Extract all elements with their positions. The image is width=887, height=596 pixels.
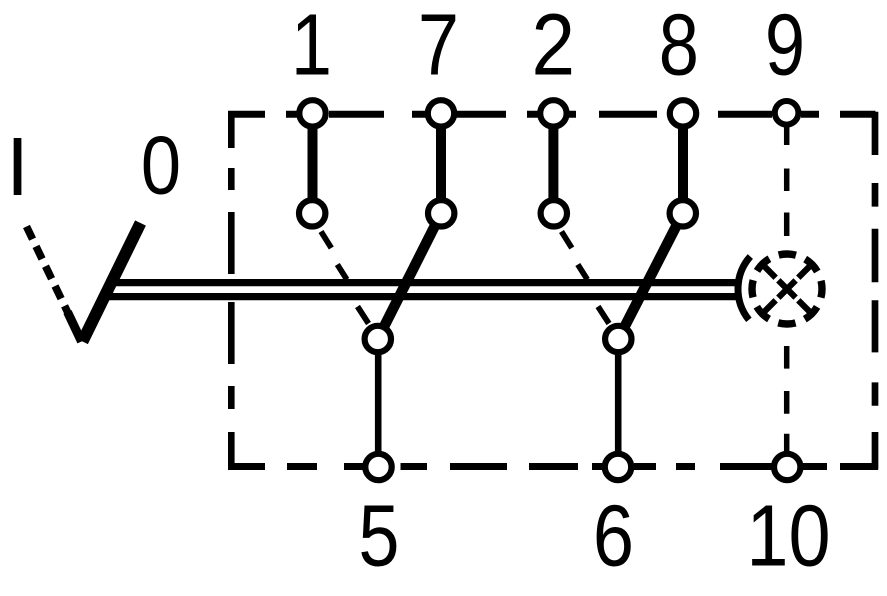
lamp actuator arc — [738, 257, 750, 320]
lever tip arm — [68, 312, 82, 342]
fixed contact circle of 1 — [299, 200, 325, 226]
pivot contact circle right — [605, 326, 631, 352]
lamp dashed circle — [752, 254, 822, 324]
dashed wire terminal 9 to lamp — [784, 127, 790, 236]
switch body dashed border left — [228, 111, 235, 469]
terminal circle 9 — [775, 101, 799, 125]
svg-text:9: 9 — [765, 0, 805, 93]
wire stub terminal 7 to fixed contact — [436, 113, 446, 213]
pivot contact circle left — [365, 326, 391, 352]
moving contact 2-6 open dashed (position I) — [562, 232, 610, 324]
svg-text:1: 1 — [291, 0, 332, 94]
lever solid (position 0) — [83, 223, 141, 342]
svg-text:7: 7 — [418, 0, 459, 94]
terminal circle 7 — [428, 100, 454, 126]
terminal circle 5 — [365, 454, 391, 480]
moving contact 1-5 open dashed (position I) — [321, 232, 369, 324]
fixed contact circle of 7 — [428, 200, 454, 226]
switch body dashed border bottom — [228, 463, 878, 470]
moving contact 8-6 closed (position 0) — [618, 213, 683, 339]
terminal circle 1 — [299, 100, 325, 126]
lamp cross diagonal 2 — [765, 267, 810, 312]
moving contact 7-5 closed (position 0) — [378, 213, 441, 339]
switch body dashed border top — [228, 111, 876, 118]
terminal circle 2 — [540, 100, 566, 126]
actuator bar top line — [110, 279, 739, 286]
svg-text:2: 2 — [532, 0, 576, 93]
lever dashed (position I) — [27, 227, 69, 314]
svg-text:10: 10 — [746, 488, 830, 585]
lamp cross diagonal 1 — [765, 267, 810, 312]
svg-text:6: 6 — [593, 488, 634, 585]
switch body dashed border right — [872, 112, 879, 470]
terminal circle 10 — [774, 454, 800, 480]
wire stub terminal 2 to fixed contact — [548, 113, 558, 213]
actuator bar bottom line — [104, 293, 739, 300]
svg-text:5: 5 — [358, 488, 399, 585]
wire stub terminal 8 to fixed contact — [678, 113, 688, 213]
wire pivot to terminal 5 — [375, 339, 382, 467]
terminal circle 6 — [605, 454, 631, 480]
wire pivot to terminal 6 — [615, 339, 622, 467]
svg-text:8: 8 — [659, 0, 699, 93]
wire stub terminal 1 to fixed contact — [308, 113, 318, 213]
svg-text:I: I — [6, 120, 29, 213]
fixed contact circle of 8 — [670, 200, 696, 226]
fixed contact circle of 2 — [541, 200, 567, 226]
dashed wire lamp to terminal 10 — [784, 346, 790, 452]
terminal circle 8 — [670, 100, 696, 126]
svg-text:0: 0 — [141, 120, 181, 212]
